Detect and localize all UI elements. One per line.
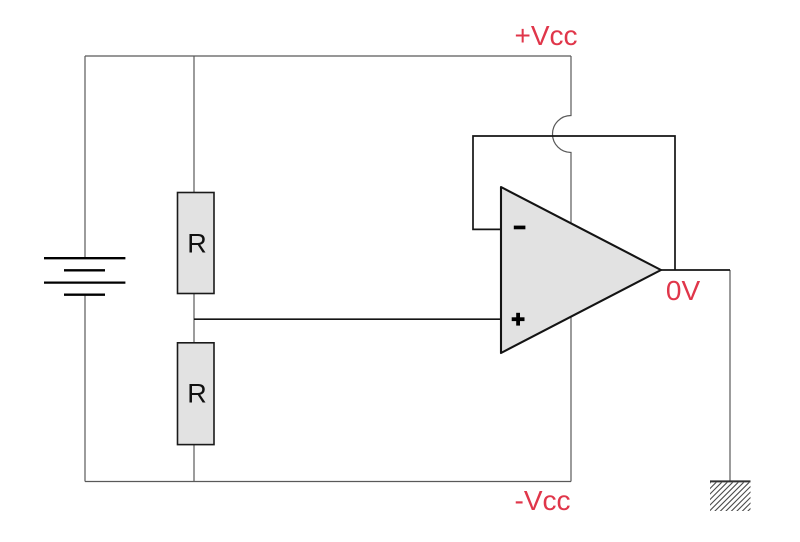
svg-text:-Vcc: -Vcc [515,485,571,516]
svg-text:R: R [187,379,207,409]
svg-text:0V: 0V [666,275,701,306]
svg-text:R: R [187,229,207,259]
svg-text:+Vcc: +Vcc [514,20,577,51]
